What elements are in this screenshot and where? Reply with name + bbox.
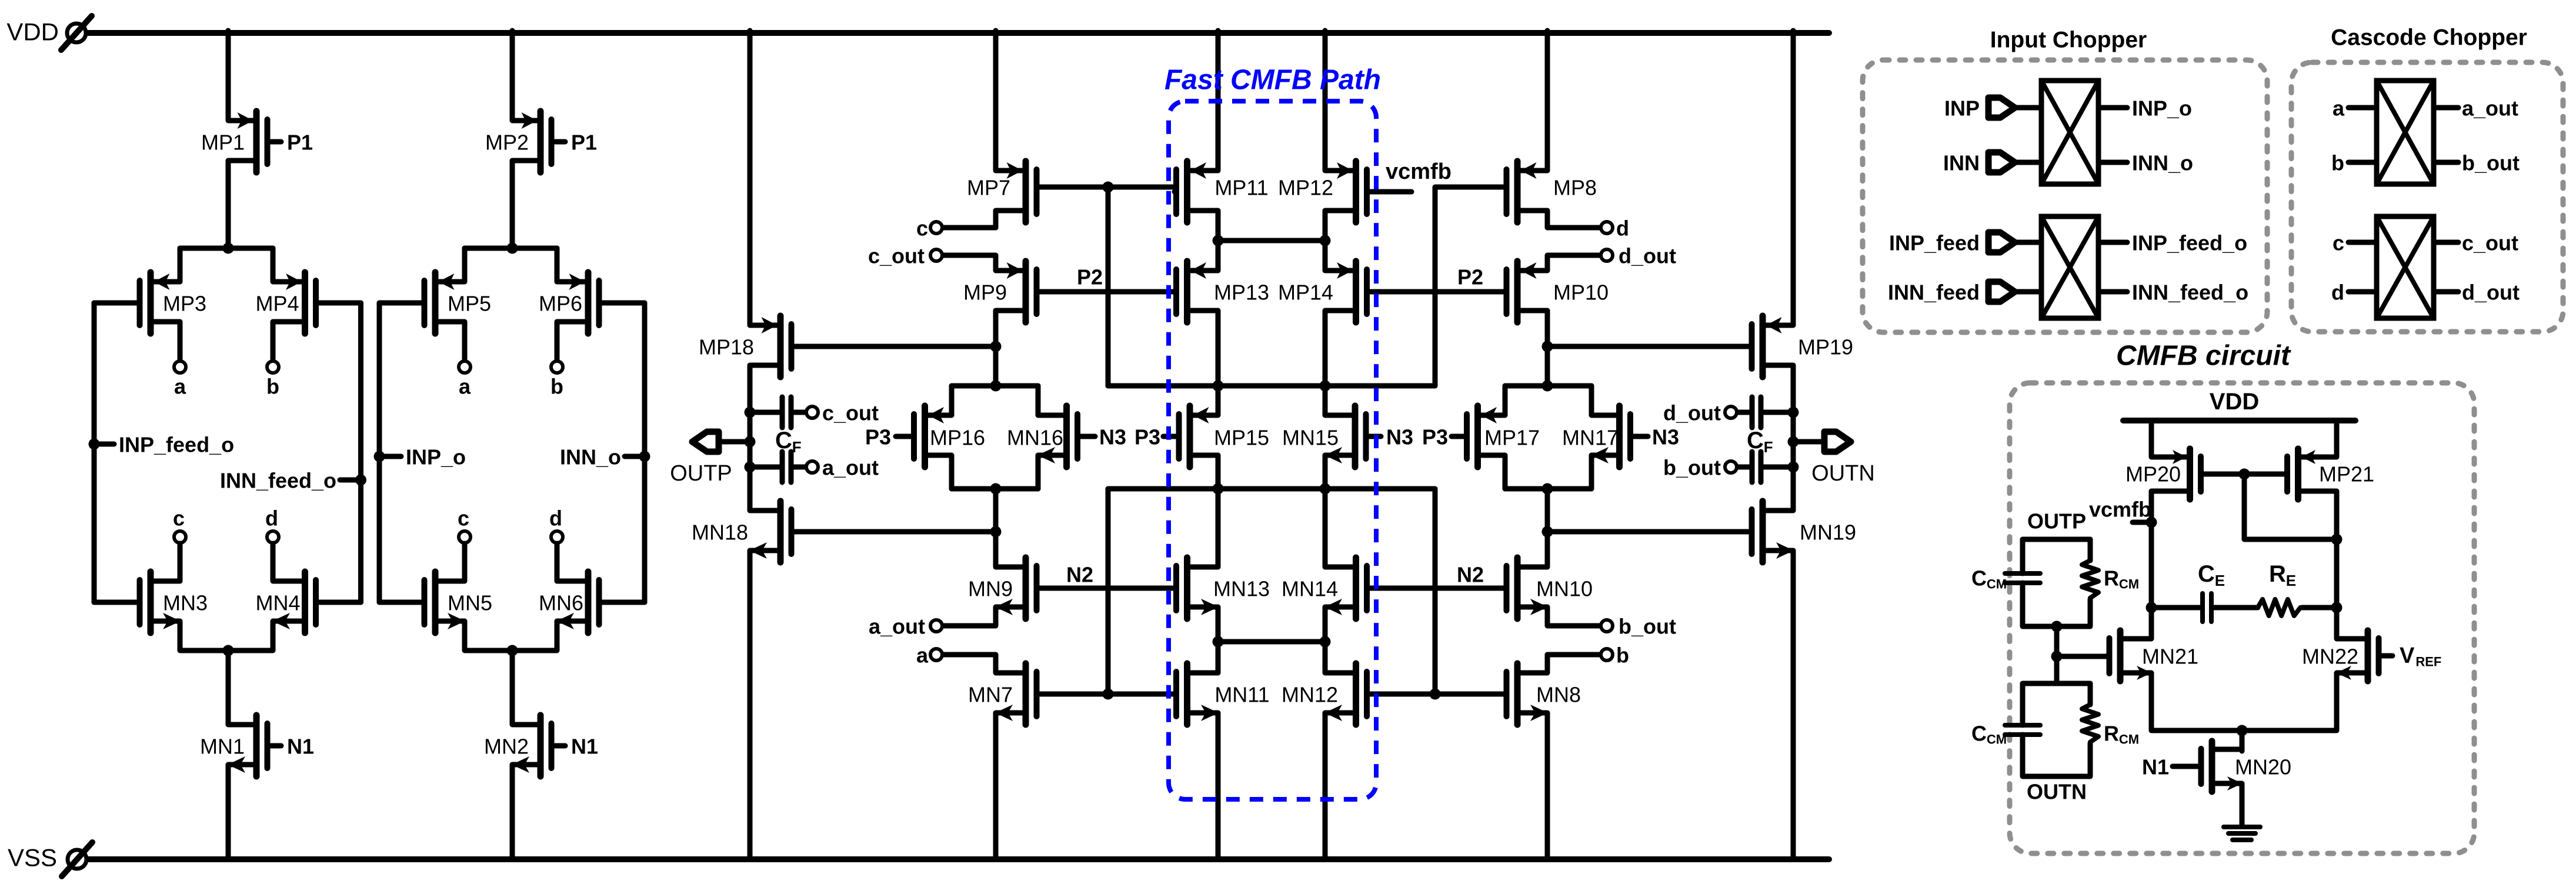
wire MN15 top stub — [1323, 386, 1328, 415]
wire MN14 source down — [1323, 607, 1328, 642]
terminal d core — [1601, 222, 1613, 233]
wire cascode bottom rail — [1108, 486, 1435, 492]
wire node A top rail — [180, 246, 273, 251]
transistor MN6 — [556, 572, 645, 633]
transistor MP14 — [1325, 261, 1367, 322]
junction MN21 gate node — [2051, 651, 2063, 662]
svg-text:VDD: VDD — [6, 18, 59, 46]
wire TG16 top — [952, 383, 1038, 389]
svg-text:R: R — [2269, 561, 2286, 587]
wire MN11 source to VSS — [1216, 713, 1221, 856]
transistor MP10 — [1507, 261, 1548, 322]
wire MN21 source to tail — [2151, 673, 2242, 730]
wire node2 wire — [1218, 238, 1325, 243]
wire TG17 bottom — [1505, 486, 1591, 492]
svg-text:N1: N1 — [2142, 755, 2169, 779]
wire MP2 drain to node — [510, 161, 515, 248]
wire MN11 gate wire — [1108, 692, 1174, 697]
wire MN22 drain up — [2334, 608, 2340, 639]
svg-text:d_out: d_out — [1619, 244, 1676, 268]
transistor MP15 — [1163, 406, 1218, 467]
svg-text:a_out: a_out — [869, 615, 925, 639]
wire left gate to rail — [1106, 187, 1111, 386]
wire MN14 drain to rail — [1323, 489, 1328, 567]
capacitor CCM top — [2005, 573, 2040, 583]
wire gate to MP21 drain — [2244, 474, 2337, 539]
svg-text:MP17: MP17 — [1484, 426, 1540, 450]
wire TG17 top — [1505, 383, 1591, 389]
svg-text:INN_feed_o: INN_feed_o — [2132, 281, 2248, 305]
wire INP_o stub — [379, 454, 401, 459]
junction rail bottom left TG node — [990, 483, 1002, 495]
svg-text:P2: P2 — [1457, 265, 1483, 289]
terminal b A — [267, 361, 279, 373]
wire vcmfb stub — [2133, 520, 2151, 525]
terminal a B — [459, 361, 471, 373]
port OUTN — [1811, 432, 1875, 486]
capacitor CF a_out — [782, 452, 791, 482]
wire MP4 drain to b — [271, 322, 276, 360]
svg-text:CM: CM — [1987, 732, 2007, 747]
transistor MP2 — [512, 111, 565, 172]
terminal d_out core — [1601, 249, 1613, 261]
svg-text:MP20: MP20 — [2125, 462, 2181, 486]
capacitor CF b_out — [1752, 452, 1761, 482]
junction node2 L — [1213, 235, 1224, 246]
label CE label — [2198, 561, 2225, 589]
wire MP21 source stub — [2334, 421, 2340, 457]
svg-text:MP7: MP7 — [967, 176, 1010, 200]
wire OUTN loop bottom — [2023, 735, 2090, 776]
wire INP wire — [2015, 105, 2041, 111]
junction rail top IR — [1320, 381, 1331, 392]
port INN port — [1988, 152, 2015, 172]
svg-text:OUTP: OUTP — [2027, 509, 2086, 533]
capacitor CE — [2203, 593, 2211, 622]
junction node B top — [507, 243, 518, 254]
wire MP5 source stub — [462, 248, 468, 282]
wire MN1 source to VSS — [226, 765, 231, 856]
svg-text:MN1: MN1 — [200, 735, 245, 759]
terminal b_out core — [1601, 620, 1613, 632]
junction OUTP col port tap — [745, 436, 756, 448]
terminal b core — [1601, 649, 1613, 661]
wire d wire — [1547, 225, 1600, 231]
svg-text:P3: P3 — [1422, 425, 1448, 449]
svg-text:INN_feed_o: INN_feed_o — [220, 469, 336, 493]
wire TG16 top stub R — [1036, 386, 1041, 415]
svg-text:b: b — [266, 375, 279, 399]
svg-text:b: b — [550, 375, 563, 399]
junction MN19 gate node — [1542, 526, 1553, 538]
svg-text:MP16: MP16 — [930, 426, 985, 450]
wire MP9 drain down — [993, 311, 999, 346]
svg-text:P1: P1 — [287, 131, 313, 155]
wire CMFB VDD bar — [2123, 418, 2355, 423]
svg-text:b_out: b_out — [1663, 456, 1721, 480]
terminal c_out left cap — [806, 406, 818, 418]
wire OUTN column mid1 — [1791, 412, 1796, 442]
svg-text:MP21: MP21 — [2319, 462, 2374, 486]
wire tail to MN2 — [510, 651, 515, 725]
transistor MN18 — [749, 501, 792, 562]
svg-text:b: b — [1616, 643, 1629, 668]
wire VDD rail — [88, 30, 1829, 36]
transistor MN14 — [1324, 558, 1367, 619]
svg-text:MP8: MP8 — [1553, 176, 1597, 200]
capacitor CF d_out — [1752, 397, 1761, 428]
port OUTP — [670, 432, 732, 486]
junction gate2 node left — [1103, 689, 1114, 700]
svg-text:MN22: MN22 — [2302, 645, 2358, 669]
svg-text:MP18: MP18 — [699, 335, 754, 359]
svg-text:MN9: MN9 — [968, 577, 1013, 601]
wire MP20 drain down — [2149, 491, 2154, 522]
svg-text:MN16: MN16 — [1007, 426, 1063, 450]
label CF right — [1747, 428, 1773, 456]
wire MP21 drain down — [2334, 491, 2340, 608]
wire MN3 source to tail — [180, 621, 273, 651]
resistor RE — [2258, 599, 2302, 616]
junction MN18 gate node — [990, 526, 1002, 538]
wire MP18 source from VDD — [748, 31, 753, 325]
svg-text:MN5: MN5 — [448, 591, 492, 615]
wire OUTP column mid2 — [748, 442, 753, 467]
svg-text:OUTN: OUTN — [1811, 461, 1875, 486]
svg-text:vcmfb: vcmfb — [2089, 498, 2151, 522]
wire b_out wire cascode — [2434, 160, 2458, 165]
svg-text:c: c — [916, 216, 928, 241]
junction INN_feed_o tap — [355, 475, 366, 486]
transistor MP18 — [750, 316, 792, 377]
wire MN21 gate wire — [2057, 654, 2107, 659]
junction rail bottom IR — [1320, 483, 1331, 495]
svg-text:MN8: MN8 — [1536, 683, 1581, 707]
power terminal VSS — [8, 842, 92, 876]
svg-text:INP_feed_o: INP_feed_o — [2132, 231, 2247, 255]
wire MN9 source to a_out — [943, 607, 996, 626]
svg-text:VSS: VSS — [8, 844, 57, 872]
wire INN_o stub — [625, 454, 645, 459]
wire div to gate node — [2054, 626, 2060, 656]
svg-text:INP_o: INP_o — [2132, 96, 2192, 121]
svg-text:E: E — [2215, 572, 2225, 589]
junction OUTP col c_out tap — [745, 407, 756, 418]
transistor MP11 — [1174, 161, 1218, 222]
wire MP11 drain down — [1216, 211, 1221, 241]
wire MP13 source up — [1216, 241, 1221, 271]
chopper input chopper 2 — [2041, 216, 2098, 318]
terminal c B — [459, 531, 471, 543]
wire OUTN column upper — [1791, 365, 1796, 412]
junction rail bottom IL — [1213, 483, 1224, 495]
wire OUTP column mid1 — [748, 412, 753, 442]
junction INN_o tap — [639, 451, 650, 462]
svg-text:R: R — [2104, 566, 2119, 591]
svg-text:Input Chopper: Input Chopper — [1990, 28, 2147, 53]
svg-text:P3: P3 — [1134, 425, 1160, 449]
svg-text:d_out: d_out — [2462, 281, 2520, 305]
svg-text:c_out: c_out — [868, 244, 925, 268]
wire c to MN3 drain — [178, 543, 183, 581]
transistor MN10 — [1507, 558, 1549, 619]
junction MP19 gate node — [1542, 341, 1553, 352]
wire left gate2 vertical — [1106, 489, 1111, 694]
svg-text:P1: P1 — [571, 131, 597, 155]
junction CMFB tail — [2237, 725, 2248, 736]
wire MP7 source from VDD — [993, 31, 999, 171]
transistor MN4 — [272, 572, 361, 633]
svg-text:INP_feed: INP_feed — [1889, 231, 1980, 255]
wire OUTN column lower — [1791, 467, 1796, 511]
junction tail A — [223, 645, 234, 656]
transistor MN20 — [2173, 741, 2243, 792]
wire MP6 source stub — [555, 248, 560, 282]
label RCM bottom label — [2104, 722, 2139, 747]
wire P2 wire left — [1037, 289, 1175, 295]
svg-text:N1: N1 — [287, 735, 314, 759]
wire MP15 bot stub — [1216, 455, 1221, 489]
transistor MN2 — [512, 715, 565, 776]
wire TG16 bottom — [952, 486, 1038, 492]
junction tail B — [507, 645, 518, 656]
transistor MP20 — [2151, 449, 2201, 499]
transistor MP16 — [896, 406, 952, 467]
wire b to MN8 drain — [1547, 655, 1600, 673]
svg-text:MN2: MN2 — [484, 735, 529, 759]
wire MP1 source from VDD — [226, 31, 231, 121]
transistor MN7 — [995, 663, 1037, 725]
junction rail top right TG node — [1542, 381, 1553, 392]
svg-text:MP15: MP15 — [1214, 426, 1269, 450]
wire MN8 gate wire — [1435, 692, 1504, 697]
wire TG17 bot stub L — [1503, 455, 1508, 489]
transistor MN12 — [1324, 663, 1367, 725]
wire MN10 source to b_out — [1547, 607, 1600, 626]
wire d_out cap wire left — [1738, 410, 1749, 415]
wire MN13 source down — [1216, 607, 1221, 642]
transistor MN21 — [2107, 631, 2152, 681]
wire INN_feed_o stub — [340, 478, 361, 483]
wire MP10 drain down — [1545, 311, 1550, 346]
svg-text:V: V — [2400, 643, 2415, 668]
transistor MN8 — [1507, 663, 1549, 725]
svg-text:Fast CMFB Path: Fast CMFB Path — [1164, 65, 1381, 96]
terminal b B — [551, 361, 563, 373]
svg-text:vcmfb: vcmfb — [1386, 159, 1451, 184]
svg-text:CM: CM — [2119, 732, 2139, 747]
wire tail to MN1 — [226, 651, 231, 725]
wire OUTN column mid2 — [1791, 442, 1796, 467]
label CF left — [775, 428, 802, 456]
wire right col mid — [1545, 489, 1550, 532]
svg-text:C: C — [2198, 561, 2215, 587]
transistor MN13 — [1174, 558, 1219, 619]
junction INP_o tap — [374, 451, 385, 462]
svg-text:d: d — [1616, 216, 1629, 241]
junction join L — [1213, 636, 1224, 648]
wire INP_feed_o wire — [2098, 240, 2127, 245]
wire MN12 drain up — [1323, 642, 1328, 673]
wire c to MN5 drain — [462, 543, 468, 581]
svg-text:MP6: MP6 — [539, 292, 582, 316]
wire MP8 drain to d — [1545, 211, 1550, 228]
junction rail top IL — [1213, 381, 1224, 392]
wire INN_o wire — [2098, 160, 2127, 165]
svg-text:c_out: c_out — [2462, 231, 2518, 255]
svg-text:MP12: MP12 — [1278, 176, 1333, 200]
wire d_out cap wire right — [1764, 410, 1793, 415]
svg-text:E: E — [2286, 572, 2296, 589]
svg-text:INP_feed_o: INP_feed_o — [119, 433, 234, 457]
wire left col to MN9 — [993, 532, 999, 567]
svg-text:N2: N2 — [1066, 563, 1093, 587]
wire TG16 bot stub L — [949, 455, 955, 489]
terminal b_out right cap — [1725, 461, 1737, 473]
wire MP15 top stub — [1216, 386, 1221, 415]
wire c_out to MP9 source — [943, 255, 996, 271]
svg-text:a: a — [174, 375, 186, 399]
svg-text:CM: CM — [1987, 577, 2007, 592]
resistor RCM top — [2082, 561, 2098, 599]
svg-text:MN15: MN15 — [1282, 426, 1339, 450]
transistor MP17 — [1451, 406, 1505, 467]
svg-text:CMFB circuit: CMFB circuit — [2116, 341, 2291, 372]
svg-text:MP14: MP14 — [1278, 281, 1333, 305]
label CCM top label — [1971, 566, 2007, 592]
transistor MN16 — [1037, 406, 1095, 467]
ground CMFB ground — [2224, 827, 2260, 840]
wire MP14 drain to rail — [1323, 311, 1328, 386]
svg-text:INN_feed: INN_feed — [1888, 281, 1980, 305]
junction OUTP col a_out tap — [745, 462, 756, 473]
transistor MP6 — [557, 272, 645, 333]
wire MN5 source to tail — [465, 621, 557, 651]
wire N2 wire left — [1037, 586, 1175, 591]
wire MP14 source up — [1323, 241, 1328, 271]
label VREF label — [2400, 643, 2441, 669]
svg-text:d: d — [265, 506, 278, 531]
wire P2 wire right — [1367, 289, 1505, 295]
svg-text:P3: P3 — [865, 425, 891, 449]
junction vcmfb node — [2146, 517, 2157, 528]
transistor MP19 — [1752, 316, 1794, 377]
wire OUTN loop top — [2023, 683, 2090, 725]
wire left col mid — [993, 489, 999, 532]
wire N2 wire right — [1367, 586, 1505, 591]
svg-text:a: a — [459, 375, 471, 399]
wire MN13 drain to rail — [1216, 489, 1221, 567]
svg-text:N3: N3 — [1099, 425, 1126, 449]
transistor MN9 — [995, 558, 1037, 619]
svg-text:REF: REF — [2415, 655, 2441, 669]
wire MP3 source stub — [178, 248, 183, 282]
wire MN8 source to VSS — [1545, 713, 1550, 856]
junction gate node left — [1103, 182, 1114, 193]
wire MP20-MP21 gate wire — [2201, 472, 2288, 477]
junction INP_feed_o tap — [89, 439, 100, 450]
wire INP_o wire — [2098, 105, 2127, 111]
wire INP_feed wire — [2015, 240, 2041, 245]
svg-text:N3: N3 — [1652, 425, 1679, 449]
svg-text:CM: CM — [2119, 577, 2139, 592]
svg-text:MN14: MN14 — [1282, 577, 1338, 601]
port INP_feed port — [1988, 232, 2015, 252]
svg-text:P2: P2 — [1077, 265, 1103, 289]
svg-text:MP2: MP2 — [485, 131, 529, 155]
terminal d B — [551, 531, 563, 543]
wire outer left A — [92, 303, 97, 602]
label RE label — [2269, 561, 2296, 589]
terminal c_out core — [930, 249, 942, 261]
wire a wire cascode — [2348, 105, 2377, 111]
wire node B top rail — [465, 246, 557, 251]
wire CE wire right — [2214, 605, 2258, 611]
terminal d_out right cap — [1725, 406, 1737, 418]
svg-text:d: d — [2331, 281, 2344, 305]
junction rail top left TG node — [990, 381, 1002, 392]
svg-text:VDD: VDD — [2210, 389, 2259, 415]
chopper cascode chopper 1 — [2377, 81, 2434, 184]
wire outer left B — [377, 303, 382, 602]
svg-text:C: C — [1971, 566, 1987, 591]
wire outer right B — [642, 303, 648, 602]
terminal c core — [930, 222, 942, 233]
wire INN_feed wire — [2015, 289, 2041, 295]
wire MP12 source from VDD — [1323, 31, 1328, 171]
resistor RCM bottom — [2082, 705, 2098, 743]
wire d_out wire cascode — [2434, 289, 2458, 295]
junction join R — [1320, 636, 1331, 648]
transistor MN1 — [228, 715, 281, 776]
terminal a A — [174, 361, 186, 373]
wire MP4 source stub — [271, 248, 276, 282]
wire MN15 bot stub — [1323, 455, 1328, 489]
port INN_feed port — [1988, 282, 2015, 302]
wire c wire cascode — [2348, 240, 2377, 245]
svg-text:d: d — [549, 506, 562, 531]
wire MP3 drain to a — [178, 322, 183, 360]
transistor MP4 — [273, 272, 361, 333]
svg-text:c: c — [2333, 231, 2344, 255]
wire MP7-MP11 gate wire — [1037, 185, 1175, 190]
wire b_out cap wire right — [1764, 465, 1793, 470]
wire MN21 drain up — [2149, 608, 2154, 639]
svg-text:INN_o: INN_o — [2132, 151, 2193, 175]
svg-text:MN17: MN17 — [1562, 426, 1619, 450]
transistor MN19 — [1752, 501, 1794, 562]
wire a to MN7 drain — [943, 655, 996, 673]
wire MP6 drain to b — [555, 322, 560, 360]
svg-text:d_out: d_out — [1663, 401, 1721, 425]
svg-text:a: a — [2333, 96, 2345, 121]
wire MN12 gate wire — [1367, 692, 1436, 697]
wire TG16 bot stub R — [1036, 455, 1041, 489]
wire TG17 bot stub R — [1589, 455, 1594, 489]
terminal c A — [174, 531, 186, 543]
wire d_out to MP10 source — [1547, 255, 1600, 271]
capacitor CCM bottom — [2005, 725, 2040, 735]
wire gate node to OUTN loop — [2054, 656, 2060, 683]
wire MN18 gate wire — [792, 529, 996, 535]
wire INN_feed_o wire — [2098, 289, 2127, 295]
junction CE node left — [2146, 602, 2157, 613]
svg-text:N2: N2 — [1457, 563, 1484, 587]
wire OUTP column upper — [748, 365, 753, 412]
wire a_out cap wire right — [794, 465, 805, 470]
svg-text:MP1: MP1 — [201, 131, 245, 155]
svg-text:a_out: a_out — [2462, 96, 2518, 121]
